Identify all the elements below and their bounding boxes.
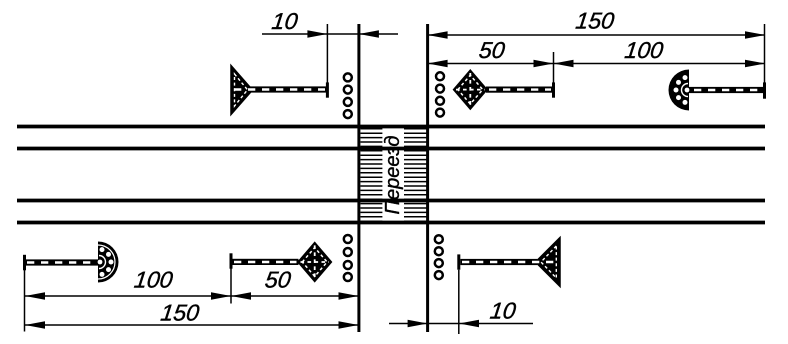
svg-text:50: 50 (478, 37, 507, 63)
sign S2 diamond top: post white dashes (489, 88, 551, 90)
svg-text:Переезд: Переезд (382, 136, 404, 215)
sign S1 triangle top-left: extension line (326, 24, 328, 83)
svg-text:100: 100 (623, 37, 665, 63)
crossing right boundary line (426, 24, 429, 332)
sign S3 semicircle top-right: half disc (669, 70, 689, 111)
sign S5 diamond bottom: extension line (230, 269, 232, 304)
sign S2 diamond top: post bar (486, 87, 552, 93)
sign S1 triangle top-left: inner dashed triangle (235, 74, 248, 106)
sign S2 diamond top: inner dashed diamond (458, 75, 483, 104)
dimension 50 top: right arrow (534, 60, 554, 68)
sign S3 semicircle top-right: post white dashes (694, 89, 762, 91)
sign S5 diamond bottom: inner dashed diamond (302, 248, 327, 277)
svg-text:10: 10 (489, 298, 518, 324)
sign S2 diamond top: horizontal white dashes inside diamond (456, 89, 485, 91)
sign S2 diamond top: vertical white dashes (469, 73, 471, 107)
sign S2 diamond top: extension line / tick (553, 52, 555, 83)
dimension 150 bottom: right arrow (339, 321, 359, 329)
svg-text:150: 150 (159, 300, 201, 326)
dimension 10 top: right arrow (359, 30, 379, 38)
sign S5 diamond bottom: diamond (298, 243, 331, 282)
sign S3 semicircle top-right: post bar (689, 87, 763, 93)
sign S5 diamond bottom: post white dashes (234, 261, 297, 263)
signal circles column bottom-right (435, 235, 443, 279)
dimension 100 top: right arrow (745, 60, 765, 68)
sign S5 diamond bottom: vertical white dashes (314, 245, 316, 279)
road line 4 (bottom outer) (17, 221, 765, 225)
dimension 10 top: line (262, 33, 398, 35)
dimension 100 top: left arrow (554, 60, 574, 68)
dimension 50/100 top: line (428, 63, 765, 65)
sign S4 semicircle bottom-left: dots (100, 247, 114, 277)
sign S4 semicircle bottom-left: inner arc (99, 256, 106, 269)
dimension 150 top: line (428, 34, 765, 36)
sign S6 triangle bottom-right: post white dashes (462, 261, 557, 263)
dimension 100 bottom: left arrow (25, 292, 45, 300)
dimension 150 top: left arrow (428, 31, 448, 39)
dimension 100/50 bottom: line (25, 295, 359, 297)
dimension 50 top: left arrow (428, 60, 448, 68)
sign S2 diamond top: diamond (454, 70, 487, 109)
crossing hatch marks (361, 129, 428, 221)
sign S6 triangle bottom-right: inner dashed triangle (541, 246, 556, 278)
sign S3 semicircle top-right: dots (674, 75, 688, 105)
sign S2 diamond top: post end cap (552, 82, 555, 97)
dimension 10 bottom: line (389, 323, 533, 325)
sign S1 triangle top-left: post bar (250, 86, 326, 92)
crossing left boundary line (357, 24, 360, 332)
road line 2 (top inner) (17, 147, 765, 151)
sign S4 semicircle bottom-left: center dot (98, 260, 103, 265)
sign S4 semicircle bottom-left: rim arc (98, 245, 115, 279)
signal circles column bottom-left (344, 235, 352, 281)
dimension 150 top: right arrow (745, 31, 765, 39)
dimension 150 bottom: line (25, 324, 359, 326)
signal circles column top-left (344, 73, 352, 118)
sign S6 triangle bottom-right: extension line (458, 270, 460, 334)
dimension 10 top: left arrow (307, 30, 327, 38)
dimension 50 bottom: left arrow (231, 292, 251, 300)
sign S1 triangle top-left: post white dashes (234, 88, 325, 90)
sign S4 semicircle bottom-left: extension line (24, 270, 26, 332)
sign S4 semicircle bottom-left: post end cap (23, 255, 26, 270)
road line 3 (bottom inner) (17, 199, 765, 203)
svg-text:100: 100 (133, 267, 175, 293)
sign S3 semicircle top-right: inner arc (682, 84, 688, 97)
signal circles column top-right (436, 72, 444, 116)
dimension 100 bottom: right arrow (211, 292, 231, 300)
sign S4 semicircle bottom-left: post white dashes (27, 261, 94, 263)
road line 1 (top outer) (17, 125, 765, 129)
sign S5 diamond bottom: horizontal white dashes inside diamond (301, 261, 330, 263)
svg-text:10: 10 (270, 8, 299, 34)
sign S5 diamond bottom: post end cap (230, 253, 233, 268)
sign S6 triangle bottom-right: post end cap (457, 254, 460, 269)
sign S3 semicircle top-right: center dot (685, 88, 690, 93)
dimension 10 bottom: left arrow (408, 320, 428, 328)
sign S4 semicircle bottom-left: post bar (26, 259, 98, 265)
svg-text:150: 150 (574, 8, 616, 34)
sign S1 triangle top-left: triangle (231, 66, 253, 115)
sign S3 semicircle top-right: extension line (764, 24, 766, 83)
dimension 10 bottom: right arrow (459, 320, 479, 328)
dimension 150 bottom: left arrow (25, 321, 45, 329)
sign S3 semicircle top-right: post end cap (763, 82, 766, 98)
sign S6 triangle bottom-right: triangle (536, 238, 561, 287)
svg-text:50: 50 (264, 267, 293, 293)
sign S5 diamond bottom: post bar (233, 259, 299, 265)
sign S4 semicircle bottom-left: half disc (98, 242, 118, 283)
sign S6 triangle bottom-right: post bar (460, 259, 537, 265)
dimension 50 bottom: right arrow (339, 292, 359, 300)
sign S1 triangle top-left: post end cap (326, 82, 329, 97)
